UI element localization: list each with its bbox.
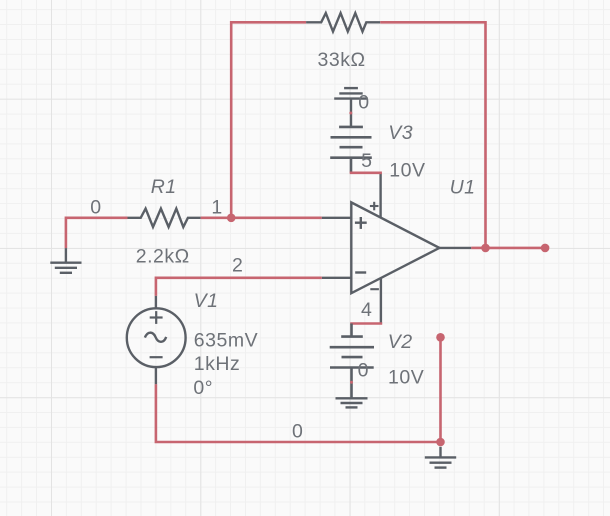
resistor 33kΩ (feedback, no designator shown) [306, 13, 380, 31]
V1 minus marker [150, 356, 163, 358]
op-amp U1 - input pin stub [322, 277, 352, 279]
svg-text:V3: V3 [388, 122, 413, 144]
battery V3 10V [330, 127, 372, 173]
op-amp U1 triangle [351, 202, 439, 293]
svg-text:V1: V1 [194, 290, 219, 312]
svg-text:0: 0 [358, 92, 369, 114]
resistor R1 2.2kΩ [128, 209, 201, 227]
svg-text:10V: 10V [389, 160, 425, 182]
open wire end dot (output) [541, 244, 550, 253]
svg-text:1kHz: 1kHz [194, 353, 240, 375]
junction: bottom net dot [436, 438, 445, 447]
svg-text:0°: 0° [193, 377, 213, 399]
junction: node 1 dot [227, 214, 236, 223]
wire: V3 plus to op-amp top power pin [350, 172, 382, 175]
svg-text:0: 0 [292, 421, 303, 443]
junction: V2 plus to ground (small dot) [350, 381, 353, 384]
op-amp U1 top power pin stub [379, 173, 381, 218]
wire: node 0 from ground up and right to R1 [66, 218, 128, 248]
wire: feedback left vertical and top-left segment [231, 22, 306, 218]
svg-text:5: 5 [361, 150, 372, 172]
svg-text:U1: U1 [450, 176, 476, 198]
svg-text:635mV: 635mV [194, 329, 258, 351]
op-amp - power marker [370, 288, 379, 290]
wire: op-amp output to junction [471, 247, 485, 250]
ac source V1 [127, 296, 186, 384]
svg-text:R1: R1 [151, 176, 177, 198]
svg-text:1: 1 [211, 197, 222, 219]
junction: output node dot [481, 244, 490, 253]
junction: V3 minus to ground (small dot) [349, 112, 352, 115]
op-amp - input marker [355, 271, 366, 273]
svg-text:4: 4 [361, 299, 372, 321]
svg-text:2.2kΩ: 2.2kΩ [136, 245, 190, 267]
svg-text:33kΩ: 33kΩ [318, 49, 366, 71]
op-amp + input marker [355, 217, 367, 229]
wire: output to open end [486, 247, 546, 250]
ground (left, node 0) [50, 248, 81, 273]
svg-text:V2: V2 [388, 331, 413, 353]
svg-text:10V: 10V [388, 367, 424, 389]
wire: R1 to op-amp + input (node 1) [201, 217, 322, 220]
open wire end dot (bottom net) [436, 333, 445, 342]
wire: V1 plus up and right to op-amp - input (node 2) [156, 278, 322, 296]
op-amp + power marker [370, 202, 379, 211]
ground (bottom right) [425, 447, 456, 468]
wire: V1 minus down and right along bottom net (node 0) [156, 384, 441, 442]
battery V2 10V [330, 324, 374, 399]
wire: bottom net vertical to open end [439, 337, 442, 442]
op-amp U1 + input pin stub [322, 217, 352, 219]
wire: op-amp bottom power pin to V2 [350, 322, 382, 325]
V1 plus marker [150, 311, 163, 324]
op-amp U1 bottom power pin stub [380, 278, 382, 324]
ground (below V2) [336, 398, 368, 407]
wire: feedback top-right segment and right vertical [380, 22, 485, 248]
svg-text:0: 0 [358, 360, 369, 382]
svg-text:0: 0 [90, 197, 101, 219]
op-amp U1 output pin stub [439, 247, 471, 249]
svg-text:2: 2 [232, 255, 243, 277]
V1 sine marker [145, 333, 166, 342]
ground (above V3, flipped) [334, 88, 368, 127]
